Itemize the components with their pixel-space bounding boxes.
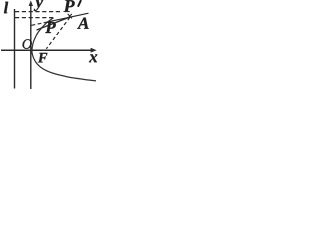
dashed horizontal from l (lower) [15, 17, 53, 19]
label A [77, 18, 89, 29]
chord line through P' (lower-left to P') [37, 17, 71, 30]
point marker P' (cross) [68, 14, 72, 19]
parabola [32, 18, 96, 81]
dashed segment P' F [46, 17, 70, 49]
label P' [64, 0, 75, 12]
dashed horizontal from l (upper) [15, 11, 63, 13]
x-axis [1, 49, 92, 51]
line to A (dashed part near y-axis) [32, 22, 47, 25]
y-axis arrowhead [29, 1, 33, 7]
directrix line l [14, 9, 16, 89]
label y [34, 0, 43, 11]
y-axis [30, 4, 32, 89]
label P [45, 22, 56, 33]
label O (origin) [23, 39, 32, 49]
prime mark of P' [78, 1, 80, 6]
label F (focus) [38, 53, 47, 62]
label x [89, 54, 97, 62]
x-axis arrowhead [91, 48, 97, 53]
line P' to A (solid part) [47, 13, 89, 22]
label l (directrix name) [4, 2, 8, 13]
